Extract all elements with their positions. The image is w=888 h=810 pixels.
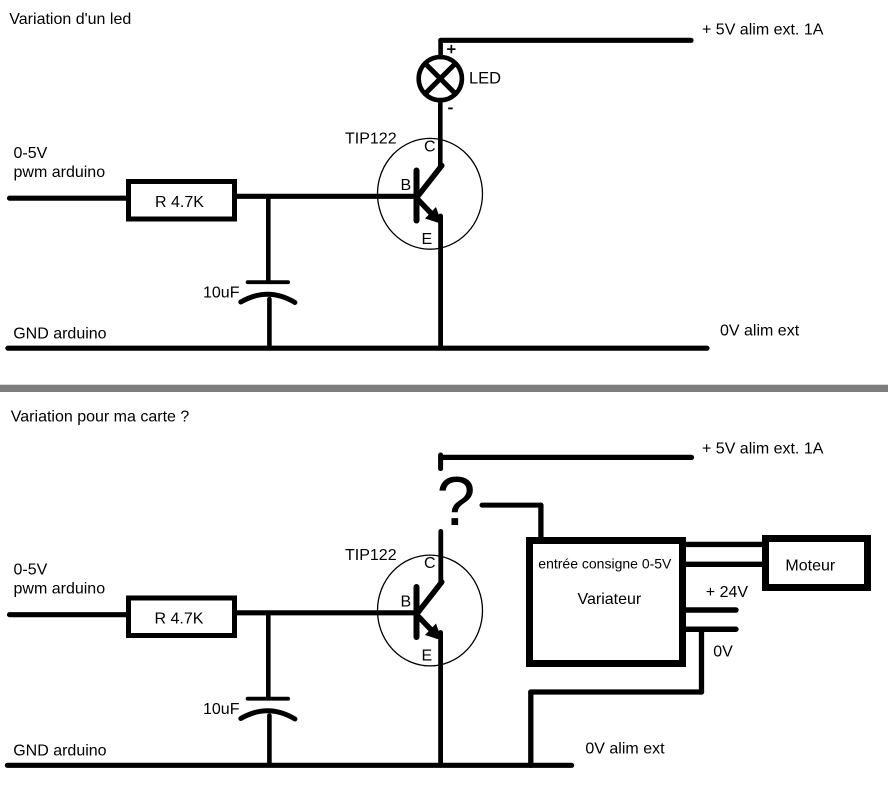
svg-text:LED: LED [469, 70, 501, 88]
svg-text:Variateur: Variateur [578, 591, 642, 608]
svg-text:+ 5V alim ext. 1A: + 5V alim ext. 1A [702, 440, 824, 457]
svg-text:TIP122: TIP122 [345, 130, 397, 147]
svg-text:pwm arduino: pwm arduino [14, 164, 106, 181]
svg-text:Variation pour ma carte ?: Variation pour ma carte ? [11, 409, 190, 426]
svg-text:10uF: 10uF [203, 701, 240, 718]
svg-text:B: B [401, 177, 412, 194]
svg-text:E: E [422, 648, 433, 665]
svg-text:0-5V: 0-5V [14, 562, 48, 579]
svg-text:0V alim ext: 0V alim ext [585, 740, 665, 757]
svg-text:Variation d'un led: Variation d'un led [9, 11, 131, 28]
svg-text:Moteur: Moteur [785, 557, 835, 574]
svg-text:TIP122: TIP122 [345, 547, 397, 564]
svg-text:C: C [424, 139, 436, 156]
svg-text:entrée consigne 0-5V: entrée consigne 0-5V [538, 555, 672, 571]
svg-text:R 4.7K: R 4.7K [155, 194, 204, 211]
svg-text:+ 5V alim ext. 1A: + 5V alim ext. 1A [702, 21, 824, 38]
svg-text:0V: 0V [713, 644, 733, 661]
svg-text:+ 24V: + 24V [706, 584, 749, 601]
svg-text:E: E [422, 231, 433, 248]
svg-text:0V alim ext: 0V alim ext [720, 322, 800, 339]
svg-text:10uF: 10uF [203, 285, 240, 302]
svg-text:C: C [424, 555, 436, 572]
svg-text:pwm arduino: pwm arduino [14, 580, 106, 597]
svg-text:R 4.7K: R 4.7K [155, 611, 204, 628]
svg-text:?: ? [437, 462, 476, 540]
svg-text:B: B [401, 594, 412, 611]
svg-text:GND arduino: GND arduino [13, 742, 106, 759]
svg-text:0-5V: 0-5V [14, 145, 48, 162]
svg-text:GND arduino: GND arduino [13, 326, 106, 343]
